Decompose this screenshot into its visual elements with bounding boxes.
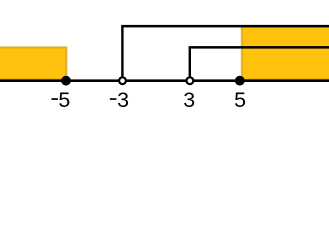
shaded interval (-infinity, -5] — [0, 47, 66, 79]
svg-text:3: 3 — [183, 88, 195, 112]
open point at -3 — [119, 77, 126, 84]
number line — [0, 79, 329, 82]
shaded interval [5, +infinity) — [242, 26, 329, 79]
label -3 minus sign — [110, 98, 117, 100]
svg-text:5: 5 — [234, 88, 246, 112]
label -5 minus sign — [52, 98, 58, 100]
bracket line from 3 (vertical) — [189, 47, 191, 77]
svg-text:3: 3 — [117, 88, 129, 112]
bracket line from 3 (horizontal to right edge) — [189, 46, 329, 49]
svg-text:5: 5 — [58, 88, 70, 112]
bracket line from -3 (horizontal to right edge) — [121, 25, 329, 28]
closed point at 5 — [235, 76, 245, 86]
closed point at -5 — [61, 76, 71, 86]
open point at 3 — [187, 77, 194, 84]
bracket line from -3 (vertical) — [121, 26, 123, 77]
